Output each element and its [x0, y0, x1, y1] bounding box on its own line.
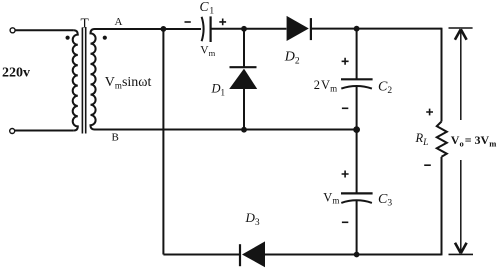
wire C3 branch lower: [356, 200, 358, 254]
transformer T1 core: [82, 28, 85, 134]
input terminal bottom-left: [10, 129, 15, 134]
node junction mid rail right end: [353, 126, 360, 133]
voltage arrow lower shaft: [460, 160, 462, 253]
wire C3 branch upper: [356, 130, 358, 194]
wire primary top: [15, 29, 74, 31]
label minus C1: [185, 21, 191, 23]
svg-text:C2: C2: [378, 80, 392, 97]
voltage arrow top bar: [449, 27, 473, 29]
node junction D1 bottom on mid rail: [241, 127, 247, 133]
voltage arrow up head: [455, 29, 467, 40]
wire vertical from node A line down to bottom rail: [162, 29, 164, 255]
wire C1 to D2: [211, 28, 287, 30]
capacitor C3 top plate: [341, 192, 373, 194]
diode D1 triangle: [229, 69, 257, 89]
input terminal top-left: [10, 28, 15, 33]
voltage arrow upper shaft: [460, 30, 462, 121]
svg-text:220v: 220v: [2, 66, 30, 81]
diode D3 triangle: [242, 241, 265, 267]
capacitor C1 curved plate: [202, 17, 204, 41]
svg-text:Vm: Vm: [323, 190, 339, 205]
wire bottom rail left of D3: [163, 254, 240, 256]
wire load branch lower: [441, 157, 443, 256]
wire D1 branch lower: [243, 89, 245, 130]
svg-text:RL: RL: [415, 131, 429, 148]
wire C2 branch lower: [356, 86, 358, 130]
label minus C2: [342, 107, 348, 109]
node junction at top of vertical line: [161, 26, 167, 32]
node junction bottom of C3 branch: [354, 252, 360, 258]
svg-text:Vm: Vm: [200, 45, 215, 58]
svg-text:T: T: [81, 15, 90, 30]
node junction at D1 top: [241, 26, 247, 32]
svg-text:B: B: [112, 132, 119, 144]
capacitor C2 top plate: [341, 78, 373, 80]
svg-text:D3: D3: [245, 210, 260, 228]
diode D2 triangle: [287, 16, 309, 41]
svg-text:Vo= 3Vm: Vo= 3Vm: [451, 133, 497, 149]
label plus C1: [219, 19, 226, 26]
label plus RL: [426, 109, 433, 116]
wire node A to C1: [95, 28, 202, 30]
svg-text:D2: D2: [284, 50, 300, 67]
svg-text:Vmsinωt: Vmsinωt: [105, 75, 152, 91]
wire mid rail from B to C2/C3 junction: [95, 129, 357, 131]
svg-text:C1: C1: [200, 0, 215, 17]
label minus RL: [424, 164, 431, 166]
diode D3 cathode bar: [239, 244, 241, 266]
diode D2 cathode bar: [310, 18, 312, 40]
capacitor C3 curved plate: [341, 200, 372, 203]
diode D1 cathode bar: [230, 66, 257, 68]
wire load branch upper: [441, 28, 443, 122]
label plus C2: [342, 58, 349, 65]
svg-text:2Vm: 2Vm: [314, 78, 337, 93]
wire C2 branch upper: [356, 29, 358, 79]
wire D1 branch upper: [243, 29, 245, 67]
label plus C3: [342, 171, 349, 178]
capacitor C2 curved plate: [341, 86, 372, 89]
phase dot secondary: [103, 36, 107, 40]
transformer T1 primary winding: [73, 30, 78, 130]
wire D2 to top-right corner: [311, 28, 442, 30]
node junction top of C2 branch: [354, 26, 360, 32]
voltage arrow bottom bar: [449, 253, 474, 255]
label minus C3: [342, 221, 348, 223]
wire primary bottom: [15, 130, 74, 132]
svg-text:A: A: [115, 16, 123, 28]
voltage arrow down head: [455, 243, 467, 254]
svg-text:C3: C3: [378, 192, 392, 209]
capacitor C1 straight plate: [210, 16, 212, 42]
svg-text:D1: D1: [211, 82, 226, 98]
wire bottom rail right of D3: [265, 254, 442, 256]
transformer T1 secondary winding: [91, 29, 96, 130]
phase dot primary: [66, 36, 70, 40]
resistor RL zigzag: [437, 122, 447, 157]
